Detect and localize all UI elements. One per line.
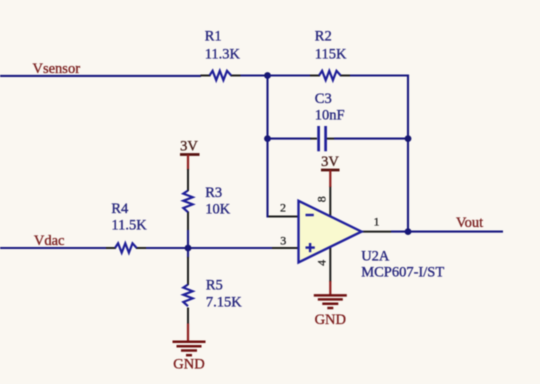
junction node E (output/feedback): [405, 228, 412, 235]
resistor R1: [201, 71, 241, 80]
plus symbol: [306, 246, 315, 248]
junction node B (C3 left): [264, 135, 271, 142]
wire output to Vout: [391, 231, 503, 233]
power port 3V (above op-amp pin 8): [321, 154, 340, 187]
wire feedback vertical (right): [407, 74, 409, 231]
svg-text:GND: GND: [173, 357, 204, 373]
svg-text:10nF: 10nF: [315, 108, 345, 124]
svg-text:Vsensor: Vsensor: [33, 61, 81, 77]
power port 3V (left): [180, 139, 200, 171]
resistor R5: [183, 257, 192, 325]
ground GND (below op-amp pin 4): [314, 281, 347, 328]
wire node A to R2: [268, 74, 311, 76]
resistor R3: [183, 181, 192, 231]
svg-text:8: 8: [314, 196, 328, 202]
svg-text:3V: 3V: [321, 154, 339, 170]
svg-text:R4: R4: [111, 201, 129, 217]
svg-text:2: 2: [280, 201, 286, 215]
wire node B down to inverting input corner: [268, 139, 270, 217]
svg-text:Vdac: Vdac: [34, 233, 65, 249]
svg-text:4: 4: [314, 260, 328, 266]
wire R2 to feedback corner: [350, 74, 409, 76]
svg-text:115K: 115K: [315, 47, 347, 63]
minus symbol: [306, 214, 314, 216]
svg-text:R3: R3: [205, 185, 222, 201]
wire 3V to R3: [187, 169, 189, 182]
svg-text:MCP607-I/ST: MCP607-I/ST: [361, 265, 444, 281]
svg-text:Vout: Vout: [456, 215, 483, 231]
wire node B to C3: [268, 138, 312, 140]
svg-text:GND: GND: [315, 312, 346, 328]
wire C3 to node C: [334, 138, 408, 140]
op-amp triangle body: [299, 201, 362, 263]
wire node A down to node B: [266, 76, 268, 139]
svg-text:10K: 10K: [205, 202, 231, 218]
capacitor C3: [311, 126, 335, 151]
svg-text:7.15K: 7.15K: [206, 295, 242, 311]
wire R3 to node D: [187, 230, 189, 248]
pin 3 (non-inverting input): [272, 247, 299, 249]
wire R1 to node A: [241, 74, 269, 76]
op-amp U2A MCP607-I/ST: [269, 186, 392, 282]
resistor R4: [106, 243, 146, 252]
ground GND (left, below R5): [173, 324, 206, 373]
svg-text:3V: 3V: [180, 139, 198, 155]
svg-text:U2A: U2A: [361, 249, 390, 265]
junction node C (C3 right on feedback): [405, 135, 412, 142]
svg-text:R1: R1: [205, 29, 222, 45]
svg-text:R2: R2: [315, 29, 332, 45]
pin 1 (output): [362, 231, 392, 233]
pin 2 (inverting input): [269, 216, 299, 218]
pin 8 (V+): [329, 186, 331, 217]
svg-text:1: 1: [374, 215, 380, 229]
wire Vsensor to R1: [0, 75, 201, 77]
svg-text:11.5K: 11.5K: [111, 218, 147, 234]
svg-text:R5: R5: [206, 278, 223, 294]
svg-text:C3: C3: [315, 91, 332, 107]
wire Vdac to R4: [0, 247, 107, 249]
wire R4 to node D: [146, 247, 272, 249]
wire node D to R5: [187, 248, 189, 258]
resistor R2: [310, 71, 350, 80]
svg-text:11.3K: 11.3K: [205, 47, 241, 63]
junction node D (R3/R4/R5/op-amp +): [185, 245, 192, 252]
pin 4 (V-): [329, 247, 331, 282]
svg-text:3: 3: [280, 234, 286, 248]
junction node A (R1/R2/C3 branch): [264, 72, 271, 79]
